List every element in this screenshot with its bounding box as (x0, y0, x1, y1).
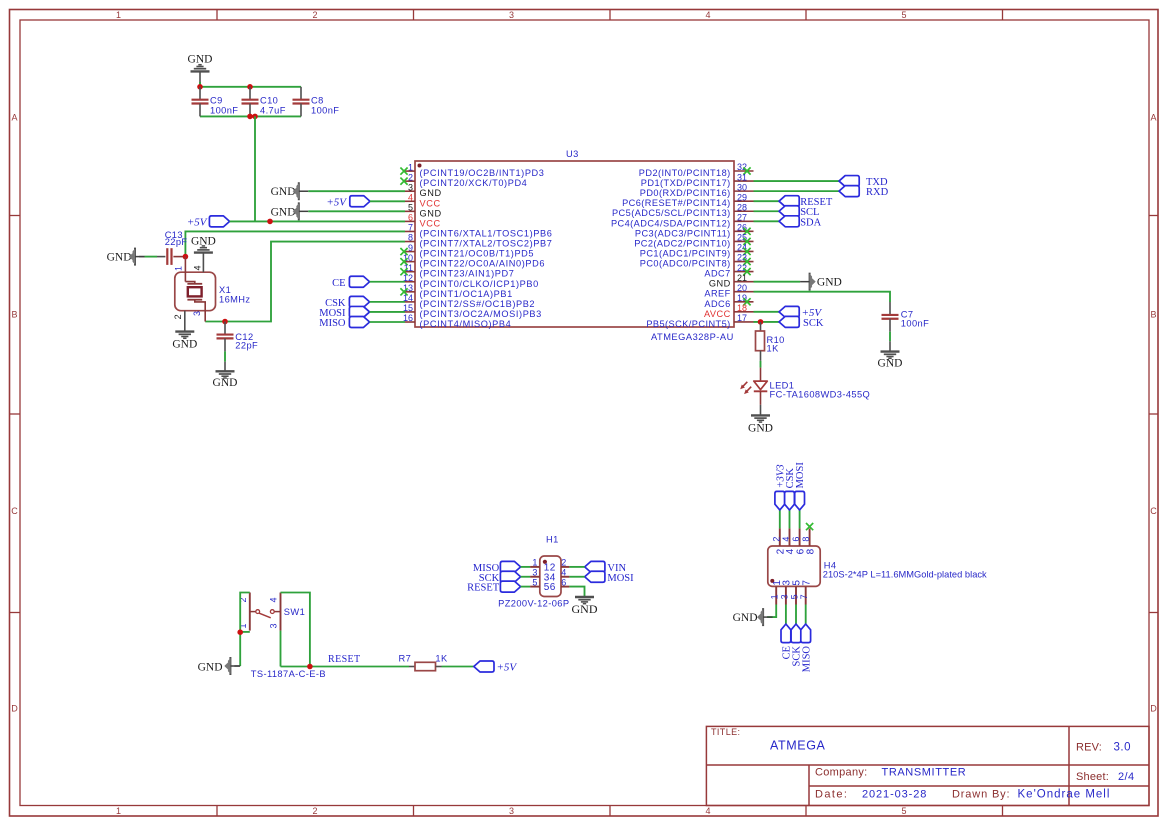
wire (569, 576, 584, 578)
wire (280, 631, 282, 667)
H1 pin 5 (530, 577, 550, 593)
wire (785, 605, 787, 625)
svg-text:GND: GND (172, 339, 197, 351)
svg-text:1: 1 (116, 806, 121, 816)
svg-text:7: 7 (799, 594, 809, 599)
svg-text:C10: C10 (260, 95, 278, 105)
svg-text:6: 6 (791, 537, 801, 542)
ground (H1 pin 6) (572, 597, 598, 616)
svg-text:PD1(TXD/PCINT17): PD1(TXD/PCINT17) (641, 178, 731, 188)
svg-text:(PCINT3/OC2A/MOSI)PB3: (PCINT3/OC2A/MOSI)PB3 (420, 309, 542, 319)
svg-text:CE: CE (332, 278, 345, 289)
svg-text:U3: U3 (566, 149, 579, 159)
junction (252, 114, 258, 120)
svg-text:(PCINT0/CLKO/ICP1)PB0: (PCINT0/CLKO/ICP1)PB0 (420, 279, 539, 289)
ground flag (pin 21) (800, 273, 842, 291)
U3 pin 4 VCC (405, 192, 441, 208)
svg-text:3: 3 (509, 806, 514, 816)
wire (200, 86, 301, 88)
svg-text:GND: GND (188, 54, 213, 66)
svg-text:21: 21 (737, 273, 747, 283)
svg-text:9: 9 (408, 243, 413, 253)
net flag MOSI (795, 462, 807, 510)
connector H1 (498, 535, 569, 609)
svg-text:REV:: REV: (1076, 742, 1102, 754)
ground flag (pin 5) (271, 202, 309, 220)
svg-text:2/4: 2/4 (1118, 771, 1135, 783)
svg-text:2: 2 (771, 537, 781, 542)
svg-text:GND: GND (709, 279, 731, 289)
U3 pin 7 (PCINT6/XTAL1/TOSC1)PB6 (405, 223, 552, 239)
ground (C7) (878, 352, 903, 370)
svg-text:R7: R7 (399, 654, 412, 664)
U3 pin 29 PC6(RESET#/PCINT14) (622, 192, 753, 208)
net flag CE (332, 276, 370, 289)
U3 pin 3 GND (405, 182, 442, 198)
svg-text:100nF: 100nF (210, 106, 238, 116)
svg-text:20: 20 (737, 283, 747, 293)
U3 pin 27 PC4(ADC4/SDA/PCINT12) (611, 213, 754, 229)
svg-text:3: 3 (532, 568, 537, 578)
U3 pin 9 (PCINT21/OC0B/T1)PD5 (400, 243, 534, 259)
wire (779, 510, 781, 528)
svg-text:C9: C9 (210, 95, 223, 105)
svg-text:GND: GND (213, 377, 238, 389)
svg-text:PC3(ADC3/PCINT11): PC3(ADC3/PCINT11) (635, 228, 731, 238)
H4 pin 3 (779, 580, 792, 605)
svg-text:18: 18 (737, 303, 747, 313)
U3 pin 26 PC3(ADC3/PCINT11) (635, 223, 754, 239)
U3 pin 22 ADC7 (704, 263, 753, 279)
svg-text:TITLE:: TITLE: (711, 727, 740, 737)
net flag RXD (839, 186, 889, 199)
svg-text:4: 4 (705, 806, 710, 816)
svg-text:GND: GND (191, 236, 216, 248)
LED LED1 (740, 368, 870, 405)
wire (754, 311, 780, 313)
svg-text:(PCINT7/XTAL2/TOSC2)PB7: (PCINT7/XTAL2/TOSC2)PB7 (420, 239, 553, 249)
svg-text:RESET: RESET (328, 654, 361, 665)
svg-text:VCC: VCC (420, 218, 441, 228)
svg-text:(PCINT19/OC2B/INT1)PD3: (PCINT19/OC2B/INT1)PD3 (420, 168, 545, 178)
junction (247, 84, 253, 90)
resistor R10 (756, 322, 785, 361)
net flag RESET (467, 581, 520, 594)
wire (281, 593, 310, 667)
svg-text:A: A (1150, 113, 1156, 123)
svg-text:Date:: Date: (815, 789, 848, 801)
wire (442, 666, 474, 668)
svg-text:(PCINT22/OC0A/AIN0)PD6: (PCINT22/OC0A/AIN0)PD6 (420, 259, 546, 269)
junction (222, 319, 228, 325)
crystal X1 (173, 253, 250, 332)
net flag CSK (325, 296, 370, 309)
IC U3 (ATMEGA328P-AU) (415, 149, 734, 342)
svg-text:GND: GND (107, 252, 132, 264)
svg-text:30: 30 (737, 182, 747, 192)
switch SW1 (238, 593, 326, 680)
ground (crystal pin 4) (191, 236, 216, 253)
ground (LED1) (748, 405, 773, 435)
svg-text:PZ200V-12-06P: PZ200V-12-06P (498, 599, 569, 609)
wire (805, 605, 807, 625)
wire (370, 281, 405, 283)
svg-text:2: 2 (561, 558, 566, 568)
svg-text:5: 5 (532, 577, 537, 587)
svg-text:5: 5 (901, 10, 906, 20)
svg-text:PD0(RXD/PCINT16): PD0(RXD/PCINT16) (640, 188, 731, 198)
svg-text:100nF: 100nF (311, 106, 339, 116)
svg-text:(PCINT1/OC1A)PB1: (PCINT1/OC1A)PB1 (420, 289, 513, 299)
U3 pin 23 PC0(ADC0/PCINT8) (640, 253, 754, 269)
svg-text:31: 31 (737, 172, 747, 182)
svg-text:C: C (1150, 506, 1157, 516)
capacitor C7 (882, 302, 930, 352)
wire (281, 666, 410, 668)
wire (370, 301, 405, 303)
junction (197, 84, 203, 90)
wire (754, 210, 780, 212)
ground (crystal pin 2) (172, 332, 197, 351)
H4 pin 8 (801, 528, 816, 554)
wire (370, 311, 405, 313)
svg-text:GND: GND (572, 602, 598, 616)
U3 pin 25 PC2(ADC2/PCINT10) (634, 233, 753, 249)
svg-text:ATMEGA: ATMEGA (770, 739, 826, 753)
wire (754, 321, 780, 323)
svg-text:1K: 1K (435, 654, 448, 664)
svg-text:MISO: MISO (801, 646, 812, 673)
svg-text:100nF: 100nF (901, 318, 929, 328)
svg-text:2021-03-28: 2021-03-28 (862, 789, 927, 801)
U3 pin 18 AVCC (704, 303, 753, 319)
net flag MISO (473, 561, 521, 574)
wire (230, 220, 405, 222)
title block (706, 726, 1149, 805)
svg-text:1K: 1K (767, 344, 780, 354)
svg-text:Drawn By:: Drawn By: (952, 789, 1010, 801)
svg-text:+5V: +5V (187, 216, 208, 228)
wire (569, 566, 584, 568)
svg-text:5: 5 (901, 806, 906, 816)
wire (370, 200, 405, 202)
svg-text:8: 8 (408, 233, 413, 243)
svg-text:B: B (1150, 310, 1156, 320)
U3 pin 6 VCC (405, 213, 441, 229)
net flag SCK (779, 316, 824, 329)
wire (760, 361, 762, 368)
net flag CE (781, 624, 793, 659)
ground flag (pin 3) (271, 182, 309, 200)
svg-text:4: 4 (561, 568, 566, 578)
H4 pin 6 (791, 528, 806, 554)
svg-text:17: 17 (737, 313, 747, 323)
svg-text:GND: GND (420, 188, 442, 198)
wire (767, 605, 776, 618)
svg-text:+5V: +5V (497, 662, 518, 674)
svg-text:1: 1 (408, 162, 413, 172)
svg-text:H1: H1 (546, 535, 559, 545)
wire (521, 566, 531, 568)
wire (240, 631, 250, 633)
svg-text:PD2(INT0/PCINT18): PD2(INT0/PCINT18) (639, 168, 731, 178)
svg-text:Sheet:: Sheet: (1076, 771, 1109, 783)
U3 pin 13 (PCINT1/OC1A)PB1 (400, 283, 512, 299)
ground flag (SW1) (198, 657, 241, 675)
svg-text:3: 3 (408, 182, 413, 192)
U3 pin 21 GND (709, 273, 754, 289)
wire (308, 190, 405, 192)
capacitor C13 (139, 230, 187, 265)
net flag +3V3 (775, 464, 787, 510)
capacitor C9 (192, 87, 239, 117)
svg-text:GND: GND (817, 277, 842, 289)
svg-text:8: 8 (801, 537, 811, 542)
wire (521, 586, 531, 588)
svg-text:PC4(ADC4/SDA/PCINT12): PC4(ADC4/SDA/PCINT12) (611, 218, 731, 228)
svg-text:MOSI: MOSI (607, 573, 634, 584)
svg-text:VCC: VCC (420, 198, 441, 208)
H1 pin 1 (530, 558, 550, 574)
svg-text:MISO: MISO (319, 318, 346, 329)
svg-text:Company:: Company: (815, 767, 868, 779)
power flag +5V (pin 4 net) (326, 196, 370, 209)
junction (183, 254, 189, 260)
svg-text:22pF: 22pF (165, 237, 188, 247)
svg-text:PC2(ADC2/PCINT10): PC2(ADC2/PCINT10) (634, 238, 730, 248)
svg-text:6: 6 (550, 582, 556, 593)
svg-text:PC1(ADC1/PCINT9): PC1(ADC1/PCINT9) (640, 248, 731, 258)
svg-text:1: 1 (532, 558, 537, 568)
net flag MISO (319, 317, 369, 330)
capacitor C8 (293, 87, 340, 117)
svg-text:6: 6 (561, 577, 566, 587)
svg-text:3: 3 (192, 311, 202, 316)
net flag SCK (791, 624, 803, 666)
svg-text:RXD: RXD (866, 187, 889, 198)
svg-text:4.7uF: 4.7uF (260, 106, 286, 116)
svg-text:GND: GND (878, 358, 903, 370)
U3 pin 32 PD2(INT0/PCINT18) (639, 162, 754, 178)
svg-text:PC5(ADC5/SCL/PCINT13): PC5(ADC5/SCL/PCINT13) (612, 208, 731, 218)
H4 pin 1 (770, 580, 783, 605)
U3 pin 17 PB5(SCK/PCINT5) (646, 313, 753, 329)
svg-text:16MHz: 16MHz (219, 295, 250, 305)
svg-text:GND: GND (420, 208, 442, 218)
svg-text:B: B (11, 310, 17, 320)
svg-text:PC6(RESET#/PCINT14): PC6(RESET#/PCINT14) (622, 198, 731, 208)
U3 pin 31 PD1(TXD/PCINT17) (641, 172, 754, 188)
H1 pin 2 (550, 558, 570, 574)
svg-text:5: 5 (408, 203, 413, 213)
net flag VIN (585, 561, 627, 574)
svg-text:8: 8 (805, 548, 816, 554)
svg-text:2: 2 (408, 172, 413, 182)
svg-text:3.0: 3.0 (1114, 742, 1132, 754)
wire (754, 200, 780, 202)
svg-text:1: 1 (116, 10, 121, 20)
svg-text:29: 29 (737, 192, 747, 202)
wire (200, 115, 301, 117)
wire (240, 593, 250, 667)
junction (247, 114, 253, 120)
U3 pin 28 PC5(ADC5/SCL/PCINT13) (612, 202, 754, 218)
svg-text:(PCINT23/AIN1)PD7: (PCINT23/AIN1)PD7 (420, 269, 515, 279)
svg-text:ADC6: ADC6 (704, 299, 730, 309)
wire (569, 587, 584, 597)
junction (307, 664, 313, 670)
svg-text:D: D (1150, 704, 1157, 714)
svg-text:4: 4 (408, 192, 413, 202)
svg-text:7: 7 (408, 223, 413, 233)
power flag +5V (R7) (474, 661, 518, 674)
svg-text:3: 3 (268, 623, 278, 628)
wire (795, 605, 797, 625)
junction (758, 319, 764, 325)
net flag SCL (779, 206, 819, 219)
U3 pin 1 (PCINT19/OC2B/INT1)PD3 (400, 162, 544, 178)
wire (754, 281, 801, 283)
svg-text:TS-1187A-C-E-B: TS-1187A-C-E-B (251, 669, 326, 679)
svg-text:GND: GND (271, 186, 296, 198)
svg-text:D: D (11, 704, 18, 714)
svg-text:TRANSMITTER: TRANSMITTER (882, 767, 967, 779)
svg-text:3: 3 (509, 10, 514, 20)
wire (754, 180, 840, 182)
H4 pin 5 (790, 580, 803, 605)
wire (254, 116, 256, 221)
U3 pin 11 (PCINT23/AIN1)PD7 (400, 263, 514, 279)
H4 pin 7 (799, 580, 812, 605)
junction (267, 219, 273, 225)
svg-text:28: 28 (737, 202, 747, 212)
svg-text:GND: GND (271, 206, 296, 218)
wire (185, 231, 405, 256)
H1 pin 4 (550, 568, 570, 584)
svg-text:GND: GND (733, 612, 758, 624)
svg-text:22pF: 22pF (235, 340, 258, 350)
wire (789, 510, 791, 528)
ground (C12) (213, 371, 238, 389)
svg-text:4: 4 (705, 10, 710, 20)
U3 pin 20 AREF (704, 283, 753, 299)
svg-text:(PCINT21/OC0B/T1)PD5: (PCINT21/OC0B/T1)PD5 (420, 249, 535, 259)
U3 pin 5 GND (405, 203, 442, 219)
svg-text:Ke'Ondrae Mell: Ke'Ondrae Mell (1018, 789, 1111, 801)
U3 pin 14 (PCINT2/SS#/OC1B)PB2 (403, 293, 535, 309)
svg-text:AREF: AREF (704, 289, 730, 299)
svg-text:1: 1 (770, 594, 780, 599)
svg-text:4: 4 (781, 537, 791, 542)
U3 pin 16 (PCINT4/MISO)PB4 (403, 313, 511, 329)
svg-text:C8: C8 (311, 95, 324, 105)
U3 pin 10 (PCINT22/OC0A/AIN0)PD6 (400, 253, 545, 269)
wire (205, 242, 405, 322)
U3 pin 12 (PCINT0/CLKO/ICP1)PB0 (403, 273, 539, 289)
capacitor C10 (242, 87, 286, 117)
net flag SCK (479, 571, 521, 584)
ground (188, 54, 213, 87)
U3 pin 2 (PCINT20/XCK/T0)PD4 (400, 172, 527, 188)
svg-text:(PCINT2/SS#/OC1B)PB2: (PCINT2/SS#/OC1B)PB2 (420, 299, 536, 309)
wire (754, 220, 780, 222)
net flag SDA (779, 216, 822, 229)
svg-text:SW1: SW1 (284, 607, 305, 617)
H4 pin 4 (781, 528, 796, 554)
svg-text:2: 2 (312, 806, 317, 816)
svg-text:2: 2 (173, 314, 183, 319)
svg-text:MOSI: MOSI (795, 462, 806, 489)
svg-text:A: A (11, 113, 17, 123)
net flag MOSI (319, 306, 369, 319)
ground flag (H4 pin 1) (733, 608, 773, 626)
svg-text:GND: GND (198, 662, 223, 674)
junction (237, 629, 243, 635)
svg-text:SDA: SDA (800, 217, 821, 228)
svg-text:AVCC: AVCC (704, 309, 731, 319)
svg-text:PC0(ADC0/PCINT8): PC0(ADC0/PCINT8) (640, 259, 731, 269)
power flag +5V (pin 6 net) (187, 216, 230, 229)
ground flag (C13) (107, 248, 145, 266)
net flag TXD (839, 176, 888, 189)
U3 pin 8 (PCINT7/XTAL2/TOSC2)PB7 (405, 233, 552, 249)
connector H4 (768, 546, 987, 586)
power flag +5V (AVCC) (779, 306, 822, 319)
H1 pin 3 (530, 568, 550, 584)
svg-text:GND: GND (748, 423, 773, 435)
no-connect (H4 pin 8) (806, 523, 813, 530)
wire (370, 321, 405, 323)
H4 pin 2 (771, 528, 786, 554)
wire (754, 292, 891, 302)
svg-text:27: 27 (737, 213, 747, 223)
svg-text:(PCINT20/XCK/T0)PD4: (PCINT20/XCK/T0)PD4 (420, 178, 528, 188)
wire (799, 510, 801, 528)
svg-text:+5V: +5V (326, 196, 347, 208)
svg-text:4: 4 (268, 597, 278, 602)
resistor R7 (399, 654, 448, 671)
svg-text:(PCINT6/XTAL1/TOSC1)PB6: (PCINT6/XTAL1/TOSC1)PB6 (420, 228, 553, 238)
wire (521, 576, 531, 578)
svg-text:5: 5 (790, 594, 800, 599)
svg-text:2: 2 (312, 10, 317, 20)
svg-text:7: 7 (801, 580, 812, 586)
net flag MISO (801, 624, 813, 672)
net flag MOSI (585, 571, 634, 584)
svg-text:ADC7: ADC7 (704, 269, 730, 279)
U3 pin 15 (PCINT3/OC2A/MOSI)PB3 (403, 303, 542, 319)
net flag RESET (779, 196, 833, 209)
U3 pin 30 PD0(RXD/PCINT16) (640, 182, 754, 198)
svg-text:FC-TA1608WD3-455Q: FC-TA1608WD3-455Q (770, 390, 871, 400)
H1 pin 6 (550, 577, 570, 593)
svg-text:3: 3 (779, 594, 789, 599)
svg-text:4: 4 (192, 265, 202, 270)
U3 pin 24 PC1(ADC1/PCINT9) (640, 243, 754, 259)
capacitor C12 (217, 322, 259, 372)
U3 pin 19 ADC6 (704, 293, 753, 309)
svg-text:1: 1 (174, 266, 184, 271)
svg-text:PB5(SCK/PCINT5): PB5(SCK/PCINT5) (646, 319, 730, 329)
svg-text:210S-2*4P L=11.6MMGold-plated: 210S-2*4P L=11.6MMGold-plated black (823, 570, 987, 580)
net flag CSK (785, 468, 797, 510)
svg-text:ATMEGA328P-AU: ATMEGA328P-AU (651, 332, 734, 342)
svg-text:(PCINT4/MISO)PB4: (PCINT4/MISO)PB4 (420, 319, 512, 329)
wire (754, 190, 840, 192)
svg-text:C: C (11, 506, 18, 516)
svg-text:6: 6 (408, 213, 413, 223)
svg-text:RESET: RESET (467, 583, 500, 594)
